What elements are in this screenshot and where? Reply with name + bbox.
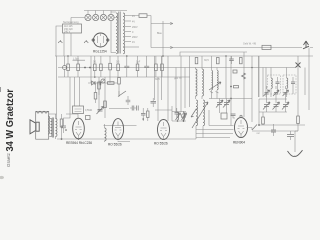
output tube RES964	[73, 118, 85, 139]
resistor box row1 j	[161, 56, 164, 77]
capacitor top row c	[229, 56, 234, 64]
wire grid cap to tube D	[233, 116, 235, 119]
series capacitor box on antenna lead	[262, 45, 271, 49]
secondary tap 2	[125, 20, 136, 23]
svg-text:30,5: 30,5	[204, 59, 209, 62]
wire vertical drop h	[109, 77, 111, 83]
wire grid line through tube B	[104, 125, 137, 127]
IF tube RO55/26	[158, 120, 170, 140]
small box above tube D	[221, 113, 227, 119]
junction dot bottom bus a	[61, 138, 63, 140]
svg-text:30,5: 30,5	[155, 78, 160, 81]
wire sub bus C	[58, 76, 190, 78]
capacitor right rail	[287, 131, 298, 140]
band filter dashed box 2	[283, 68, 296, 98]
wire stub above row1	[73, 60, 86, 64]
dial lamp 3	[100, 11, 106, 21]
grid capacitor tube D	[231, 114, 236, 116]
junction dot mid a	[230, 86, 232, 88]
resistor box row1 i	[155, 56, 158, 77]
dial lamp 1	[85, 11, 91, 21]
svg-text:RGL1254: RGL1254	[93, 50, 107, 54]
power transformer core	[119, 12, 120, 54]
capacitor pair mid a	[130, 106, 136, 111]
wire main top bus	[55, 55, 313, 57]
wire gang bracket	[259, 86, 287, 125]
small box right of grid block	[86, 116, 91, 120]
detector tube REN904	[235, 115, 248, 137]
power transformer primary winding	[116, 13, 118, 54]
capacitor below switch	[126, 96, 131, 105]
secondary tap 5	[125, 36, 138, 39]
junction dot IF filter b	[183, 120, 185, 122]
trimmer capacitor 2	[273, 90, 279, 96]
wire to other receivers arrow 2	[151, 46, 173, 48]
wire to other receivers arrow 1	[151, 22, 173, 24]
wire tube D to switch	[247, 128, 253, 131]
secondary tap 1	[125, 15, 136, 18]
resistor box row1 b	[67, 56, 70, 77]
junction dot bus b	[126, 55, 128, 57]
wire verticals center	[155, 52, 248, 121]
resistor above tube C left	[147, 108, 149, 121]
svg-text:RO 55/26: RO 55/26	[154, 142, 168, 146]
IF transformer 2 winding 1	[212, 71, 213, 90]
choke coil left of tube B	[105, 124, 107, 142]
wire bottom segment right	[196, 134, 233, 140]
oscillator coil winding 1	[196, 100, 198, 130]
wire right column verticals	[259, 56, 305, 116]
scan smudge bottom left	[0, 176, 4, 179]
wire gang bottom line	[259, 111, 287, 113]
line capacitor left	[58, 40, 62, 43]
wire sub bus B	[58, 67, 296, 69]
antenna symbol	[303, 41, 309, 49]
capacitor row2 a	[99, 81, 101, 86]
capacitor at 273 bottom	[271, 124, 276, 136]
gang section 1	[263, 102, 270, 112]
junction dot row1 a	[84, 67, 86, 69]
resistor zigzag right	[242, 73, 246, 79]
wire lamp row feed	[71, 18, 118, 25]
wire heater vertical	[150, 16, 152, 48]
resistor box row1 g	[117, 56, 120, 77]
IF coil upper winding 2	[202, 56, 204, 99]
capacitor row1 d	[144, 56, 149, 77]
gang section 3	[282, 102, 289, 112]
junction dot bottom bus b	[78, 138, 80, 140]
grid resistor block above output tube	[73, 106, 93, 114]
svg-text:RES964 Rbl.C236: RES964 Rbl.C236	[66, 141, 92, 145]
tuning arrow through coils	[192, 102, 208, 128]
wire speaker to transformer	[49, 119, 51, 137]
svg-text:L.Spr.: L.Spr.	[73, 57, 80, 60]
wire transformer bottom	[55, 137, 57, 140]
output transformer primary winding	[51, 119, 53, 137]
secondary tap 7	[125, 46, 139, 48]
power transformer secondary winding	[123, 13, 125, 54]
wire lower return line	[252, 130, 291, 132]
secondary tap 4	[125, 31, 134, 34]
capacitor right of tube C	[175, 108, 180, 118]
capacitor above tube C columns	[151, 98, 157, 107]
junction dot bus f	[94, 76, 96, 78]
heater resistor box	[131, 14, 151, 18]
wire vertical drop c	[73, 77, 75, 106]
wire primary top connection	[111, 12, 116, 53]
wire vertical drop d	[78, 77, 80, 106]
svg-text:0,5MΩ: 0,5MΩ	[85, 109, 92, 112]
capacitor top mid	[233, 70, 237, 73]
resistor box row1 c	[77, 56, 80, 77]
junction dot bus d	[225, 55, 227, 57]
voltage selector box	[63, 24, 82, 34]
capacitor row1 c	[124, 56, 129, 77]
wire coil to tube D second	[196, 129, 234, 131]
wire vertical drop f	[98, 77, 100, 112]
wire mains leads	[56, 26, 71, 56]
variable capacitor above tube D left	[216, 99, 223, 114]
switch arm left of coils	[191, 109, 197, 118]
wire tube C cathode down	[163, 138, 165, 141]
wire tube A cathode down	[78, 138, 80, 140]
wire row2 bus segment	[88, 82, 117, 84]
wire AVC line	[209, 98, 252, 100]
svg-text:Blau: Blau	[157, 32, 162, 35]
switch contacts below IF2	[210, 92, 219, 94]
svg-text:260V: 260V	[132, 26, 138, 29]
capacitor pair mid b	[137, 106, 139, 111]
svg-text:34 W Graetzor: 34 W Graetzor	[5, 89, 16, 152]
wire transformer secondary top to tube anode	[56, 114, 79, 119]
coupling capacitor left of output tube	[61, 121, 67, 133]
wire vertical drop b	[64, 77, 71, 121]
svg-text:REN904: REN904	[233, 141, 245, 145]
gang section 2	[273, 102, 280, 112]
wire vertical drop a	[56, 56, 58, 114]
rectifier tube RGL1254 circle	[92, 33, 109, 47]
resistor right column lower	[94, 83, 97, 103]
junction dot bus a	[67, 55, 69, 57]
wire IF filter frame	[172, 106, 186, 121]
svg-text:1μF: 1μF	[136, 61, 141, 64]
ground symbol	[288, 150, 303, 156]
svg-text:Graetz: Graetz	[6, 152, 11, 167]
wire heater drop	[162, 21, 164, 56]
secondary tap 3	[125, 26, 138, 29]
wire vertical drop e	[90, 56, 92, 83]
small resistor mid	[234, 86, 239, 88]
trimmer right of tube C	[181, 111, 185, 122]
resistor top row b	[217, 58, 220, 64]
junction dot mid b	[230, 98, 232, 100]
line capacitor right	[84, 40, 88, 43]
IF transformer 2 winding 2	[217, 71, 218, 90]
svg-text:4V: 4V	[132, 20, 135, 23]
resistor top row a	[195, 58, 198, 64]
wire right rail	[308, 48, 310, 111]
IF coil upper winding 1	[196, 68, 198, 100]
capacitor with arrow left of tube B	[97, 107, 104, 115]
output transformer secondary winding	[56, 119, 58, 137]
wire vertical drop g	[104, 77, 106, 118]
circle component row1	[63, 56, 67, 77]
svg-text:260V: 260V	[132, 36, 138, 39]
wire verticals right of coils	[212, 52, 264, 126]
resistor right column upper	[98, 82, 101, 95]
output transformer core	[52, 118, 53, 138]
switch contact mid	[118, 91, 126, 97]
resistor box row1 h	[136, 56, 139, 77]
tuning arrow IF2	[209, 82, 221, 90]
junction dot bus e	[251, 67, 253, 69]
resistor below gang	[262, 112, 265, 125]
scan edge mark left	[0, 87, 2, 92]
switch cross on rail	[296, 63, 301, 68]
svg-text:240 V: 240 V	[64, 31, 71, 34]
resistor above tube B column	[104, 101, 107, 108]
wire top bracket over lamps	[84, 10, 127, 12]
svg-text:Gelb W. ¹/³B: Gelb W. ¹/³B	[243, 43, 256, 46]
wire speaker top	[49, 114, 57, 119]
wire coil to tube D	[209, 110, 234, 126]
junction dot row1 b	[89, 67, 91, 69]
AF tube RO55/26	[112, 119, 123, 140]
resistor box row2 b	[108, 82, 115, 85]
electrolytic cap circle b	[101, 79, 105, 83]
wire link above tube C	[155, 109, 172, 111]
wire AVC return line	[259, 124, 305, 126]
trimmer capacitor 3	[283, 90, 289, 96]
wire tube B cathode down	[118, 140, 130, 143]
resistor box row1 e	[100, 56, 103, 77]
svg-text:RO 55/26: RO 55/26	[108, 143, 122, 147]
loudspeaker	[30, 111, 50, 139]
wire bottom bus	[57, 138, 196, 140]
band filter dashed box 1	[268, 68, 281, 98]
field coil resistor	[60, 114, 63, 139]
resistor box row1 d	[94, 56, 97, 77]
wire coil bottoms	[196, 130, 203, 138]
secondary tap 6	[125, 41, 136, 44]
variable capacitor above tube D right	[223, 99, 230, 114]
wire ground stem	[295, 131, 298, 152]
resistor box row1 f	[109, 56, 112, 77]
trimmer capacitor 1	[264, 90, 270, 96]
fuse lamp 4	[108, 11, 114, 21]
wire link above tube B	[109, 108, 129, 110]
IF filter winding right	[182, 113, 187, 121]
junction dot gang	[258, 124, 260, 126]
switch lower right	[252, 125, 257, 131]
dial lamp 2	[93, 11, 99, 21]
oscillator coil winding 2	[203, 100, 205, 130]
diode arrow row2	[92, 81, 96, 85]
junction dot IF filter a	[177, 120, 179, 122]
resistor right rail	[297, 116, 300, 131]
capacitor pair above tube C left	[141, 108, 146, 121]
junction dot bus c	[162, 55, 164, 57]
svg-text:4V: 4V	[132, 41, 135, 44]
wire top-right bus	[173, 47, 313, 49]
IF filter winding left	[176, 113, 181, 121]
resistor left column mid	[118, 77, 121, 91]
resistor top row d	[240, 58, 243, 64]
